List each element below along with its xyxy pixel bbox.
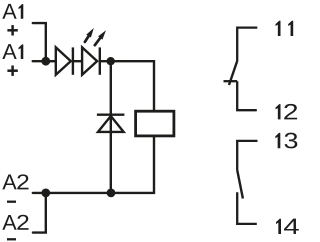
- LED D2 emission arrow 1: [85, 28, 94, 42]
- wire LED D2 to node B: [100, 60, 111, 62]
- relay coil K1: [136, 111, 174, 136]
- node A junction dot: [41, 57, 50, 66]
- plus sign of upper A1: [7, 25, 17, 35]
- terminal label A2 (lower): [2, 215, 28, 230]
- wire from lower A1 to node A: [33, 60, 46, 62]
- bottom rail wire: [46, 192, 111, 194]
- wire node B to relay coil branch: [111, 61, 154, 111]
- contact 13-14 upper terminal wire: [237, 141, 257, 170]
- contact 11-12 fixed seat tick: [224, 80, 238, 82]
- LED D2: [82, 47, 100, 74]
- terminal label A1 (lower): [2, 44, 23, 59]
- pin label 14: [276, 219, 299, 234]
- contact 11-12 upper terminal wire: [237, 28, 257, 62]
- node B junction dot: [107, 57, 115, 65]
- plus sign of lower A1: [7, 66, 17, 76]
- node D junction dot: [41, 189, 50, 198]
- contact 13-14 moving blade (NO): [237, 170, 243, 199]
- contact 11-12 moving blade (NC): [229, 61, 237, 85]
- freewheeling diode D3: [97, 115, 125, 132]
- wire D1 to LED D2: [73, 60, 82, 62]
- wire node A to diode D1: [46, 60, 56, 62]
- contact 13-14 lower terminal wire: [237, 192, 257, 224]
- minus sign of lower A2: [7, 238, 16, 240]
- wire node B down through freewheeling diode: [110, 61, 112, 193]
- minus sign of upper A2: [7, 201, 16, 203]
- LED D2 emission arrow 2: [95, 30, 106, 45]
- wire from lower A2 to node D: [33, 193, 46, 233]
- wire coil K1 to bottom rail: [111, 136, 154, 193]
- diode D1: [56, 47, 73, 74]
- wire from upper A1 to node A: [33, 23, 46, 61]
- pin label 13: [275, 133, 297, 149]
- terminal label A2 (upper): [2, 174, 28, 189]
- contact 11-12 lower terminal wire: [237, 81, 257, 110]
- pin label 11: [276, 21, 294, 36]
- terminal label A1 (upper): [2, 4, 23, 19]
- wire from upper A2 to node D: [33, 192, 46, 194]
- node C junction dot: [107, 189, 116, 198]
- pin label 12: [276, 104, 298, 120]
